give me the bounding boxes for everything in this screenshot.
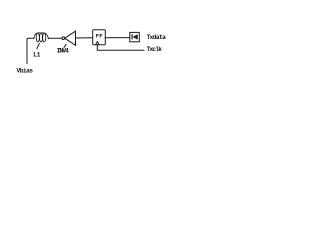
svg-text:Vbias: Vbias xyxy=(17,67,34,74)
svg-text:FF: FF xyxy=(96,33,104,40)
svg-text:INV4: INV4 xyxy=(57,48,69,55)
svg-text:Txdata: Txdata xyxy=(147,34,167,41)
svg-text:Txclk: Txclk xyxy=(147,46,163,53)
svg-text:L1: L1 xyxy=(33,52,41,59)
